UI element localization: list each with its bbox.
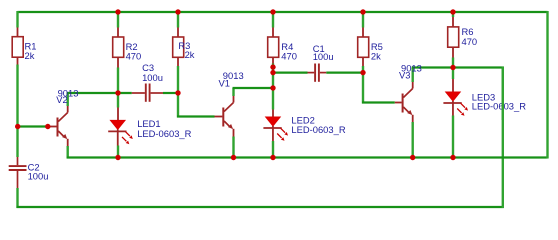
junction top rail R5 <box>360 9 365 14</box>
LED LED2 <box>263 110 288 142</box>
capacitor C1 <box>308 64 327 82</box>
wire R3 bottom <box>177 66 179 118</box>
junction LED3 bus <box>450 155 455 160</box>
wire C3 right <box>163 92 178 94</box>
transistor V3 <box>395 82 413 122</box>
transistor V1 <box>215 96 234 137</box>
junction R6/LED3 node <box>450 65 455 70</box>
wire right rail <box>546 11 548 159</box>
svg-text:LED-0603_R: LED-0603_R <box>291 124 345 135</box>
svg-text:V1: V1 <box>219 78 230 89</box>
wire R2 bottom <box>117 68 119 94</box>
svg-text:470: 470 <box>126 50 142 61</box>
wire R2 top drop <box>117 11 119 28</box>
junction V1 collector node <box>270 85 275 90</box>
junction top rail R4 <box>270 9 275 14</box>
resistor R2 <box>113 28 124 68</box>
wire R1 bottom to base node <box>16 65 18 127</box>
svg-text:2k: 2k <box>25 50 35 61</box>
junction top rail R6 <box>450 9 455 14</box>
wire LED1 top <box>117 93 119 108</box>
wire R4 bottom <box>272 64 274 110</box>
junction V2 base pin <box>45 124 50 129</box>
wire R5 bottom <box>362 66 364 104</box>
resistor R1 <box>12 28 23 65</box>
wire R4 top drop <box>272 11 274 28</box>
wire C2 top <box>16 127 18 158</box>
junction LED2 bus <box>270 155 275 160</box>
wire C2 bottom <box>16 188 18 208</box>
wire R1 top drop <box>16 11 18 28</box>
wire LED1 bottom <box>117 146 119 159</box>
resistor R5 <box>358 28 369 67</box>
wire V3 base <box>362 101 395 103</box>
wire V1 collector up <box>232 88 234 96</box>
junction C3/R3 node <box>175 90 180 95</box>
junction top rail R2 <box>115 9 120 14</box>
resistor R6 <box>448 17 459 58</box>
svg-text:470: 470 <box>281 50 297 61</box>
wire stage3 collector node <box>412 66 504 68</box>
junction C1/R5 node <box>360 70 365 75</box>
wire V3 emitter down <box>412 122 414 159</box>
wire LED2 bottom <box>272 141 274 159</box>
wire bottom bus <box>17 206 504 208</box>
LED LED1 <box>108 108 133 146</box>
wire V1 base <box>177 115 215 117</box>
junction V1 emitter bus <box>231 155 236 160</box>
wire V3 collector up <box>412 68 414 83</box>
svg-text:2k: 2k <box>371 50 381 61</box>
svg-text:470: 470 <box>462 36 478 47</box>
wire right riser lower <box>502 67 504 209</box>
wire C1 right <box>326 71 363 73</box>
wire V2 emitter down <box>66 146 68 159</box>
transistor V2 <box>48 106 68 146</box>
LED LED3 <box>443 79 468 116</box>
capacitor C3 <box>132 84 163 102</box>
wire stage2 collector node <box>233 87 274 89</box>
junction stage1 node <box>115 90 120 95</box>
wire V1 emitter down <box>232 137 234 159</box>
svg-text:LED-0603_R: LED-0603_R <box>472 101 526 112</box>
resistor R3 <box>173 28 184 67</box>
wire LED3 bottom <box>452 116 454 159</box>
wire R6 bottom <box>452 58 454 80</box>
junction V3 emitter bus <box>410 155 415 160</box>
junction C1 left <box>270 70 275 75</box>
capacitor C2 <box>9 157 27 188</box>
wire V2 base <box>17 125 48 127</box>
svg-text:LED-0603_R: LED-0603_R <box>137 128 191 139</box>
wire R6 top drop <box>452 11 454 17</box>
svg-text:100u: 100u <box>313 51 334 62</box>
junction R4 pin <box>270 64 275 69</box>
svg-text:100u: 100u <box>142 72 163 83</box>
svg-text:V2: V2 <box>56 94 67 105</box>
wire stage1 collector node <box>67 92 132 94</box>
junction top rail R3 <box>175 9 180 14</box>
svg-text:V3: V3 <box>399 70 410 81</box>
wire C1 left <box>273 71 308 73</box>
wire top rail <box>18 11 548 13</box>
junction LED1 bus <box>115 155 120 160</box>
svg-text:100u: 100u <box>28 171 49 182</box>
wire emitter bus <box>67 156 548 158</box>
junction node R1/C2/base <box>15 124 20 129</box>
resistor R4 <box>268 28 279 64</box>
wire R5 top drop <box>362 11 364 28</box>
svg-text:2k: 2k <box>185 49 195 60</box>
wire right riser upper overlay <box>502 67 504 121</box>
wire R3 top drop <box>177 11 179 28</box>
wire V2 collector up <box>66 93 68 106</box>
